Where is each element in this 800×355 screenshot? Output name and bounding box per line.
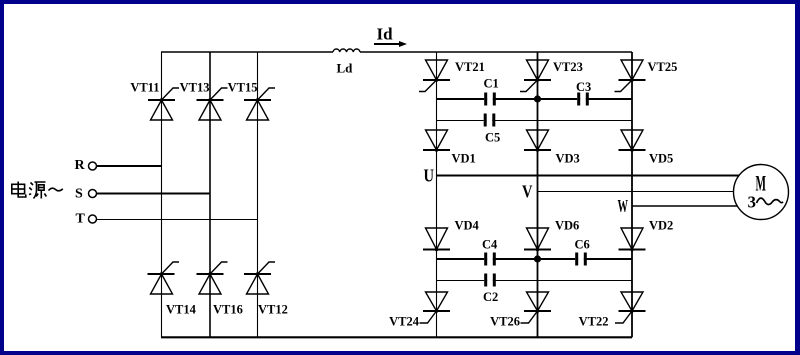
- wire commutation rail bottom2: [437, 280, 633, 282]
- svg-text:C2: C2: [483, 290, 498, 304]
- junction dot rail3-legB: [534, 255, 541, 262]
- svg-text:3: 3: [748, 193, 757, 212]
- diode VD1: [423, 130, 476, 166]
- svg-text:C1: C1: [484, 77, 499, 91]
- wire rectifier leg 2: [209, 52, 211, 337]
- svg-text:T: T: [76, 212, 86, 227]
- current arrow Id: [374, 25, 407, 48]
- wire rectifier leg 3: [257, 52, 259, 337]
- diode VD2: [619, 219, 674, 252]
- svg-text:C5: C5: [485, 131, 500, 145]
- svg-text:VD2: VD2: [649, 219, 673, 233]
- svg-text:VD6: VD6: [555, 219, 579, 233]
- svg-text:R: R: [75, 158, 86, 173]
- label Ld: [337, 61, 354, 76]
- thyristor VT13: [180, 81, 228, 121]
- thyristor VT22: [579, 292, 646, 329]
- svg-text:C4: C4: [482, 238, 498, 252]
- label power source 电源~: [12, 182, 63, 199]
- motor M circle: [734, 165, 789, 220]
- svg-text:W: W: [618, 196, 629, 216]
- svg-text:VT13: VT13: [180, 81, 210, 95]
- wire inverter leg C: [631, 52, 633, 337]
- label U: [424, 166, 435, 186]
- diode VD5: [619, 130, 674, 166]
- svg-text:VT22: VT22: [579, 315, 609, 329]
- capacitor C1: [484, 77, 499, 106]
- svg-text:Id: Id: [377, 25, 394, 44]
- svg-text:U: U: [424, 166, 435, 186]
- thyristor VT23: [520, 60, 583, 92]
- thyristor VT12: [244, 262, 288, 317]
- svg-text:VT14: VT14: [166, 303, 197, 317]
- wire rectifier leg 1: [161, 52, 163, 337]
- inductor Ld coil: [333, 49, 360, 52]
- wire top DC bus: [161, 51, 632, 53]
- thyristor VT24: [389, 292, 450, 329]
- svg-text:M: M: [756, 171, 767, 196]
- thyristor VT11: [130, 81, 179, 121]
- capacitor C4: [482, 238, 498, 266]
- svg-text:VD5: VD5: [649, 152, 673, 166]
- wire bottom DC bus: [161, 336, 632, 338]
- thyristor VT16: [197, 262, 243, 317]
- wire phase T: [97, 219, 258, 221]
- svg-text:C6: C6: [575, 238, 590, 252]
- wire phase R: [97, 165, 162, 167]
- label T: [76, 212, 86, 227]
- svg-text:VT21: VT21: [455, 60, 485, 74]
- thyristor VT14: [148, 262, 197, 317]
- capacitor C3: [576, 80, 591, 106]
- svg-text:VT11: VT11: [130, 81, 159, 95]
- diode VD4: [423, 219, 480, 252]
- svg-text:VD3: VD3: [556, 152, 580, 166]
- svg-text:VD4: VD4: [455, 219, 480, 233]
- terminal S circle: [89, 190, 97, 198]
- svg-text:VT26: VT26: [490, 315, 520, 329]
- wire output U: [437, 175, 740, 177]
- label R: [75, 158, 86, 173]
- wire phase S: [97, 193, 210, 195]
- svg-text:VD1: VD1: [452, 152, 476, 166]
- terminal T circle: [89, 215, 97, 223]
- svg-text:S: S: [75, 187, 83, 202]
- svg-text:V: V: [522, 182, 533, 202]
- thyristor VT26: [490, 292, 551, 329]
- wire commutation rail top1: [437, 98, 633, 100]
- label W: [618, 196, 629, 216]
- wire inverter leg A: [436, 52, 438, 337]
- diode VD3: [524, 130, 580, 166]
- wire commutation rail top2: [437, 120, 633, 122]
- wire inverter leg B: [537, 52, 539, 337]
- terminal R circle: [89, 162, 97, 170]
- capacitor C5: [484, 114, 501, 145]
- wire output W: [632, 205, 738, 207]
- diode VD6: [524, 219, 579, 252]
- svg-text:VT23: VT23: [553, 60, 583, 74]
- svg-text:VT25: VT25: [648, 60, 678, 74]
- svg-text:VT24: VT24: [389, 315, 420, 329]
- label V: [522, 182, 533, 202]
- svg-text:VT12: VT12: [258, 303, 288, 317]
- svg-text:C3: C3: [576, 80, 591, 94]
- capacitor C6: [575, 238, 590, 266]
- thyristor VT15: [228, 81, 275, 121]
- svg-text:VT16: VT16: [213, 303, 243, 317]
- thyristor VT21: [419, 60, 485, 92]
- capacitor C2: [483, 274, 498, 305]
- svg-text:VT15: VT15: [228, 81, 258, 95]
- thyristor VT25: [615, 60, 678, 92]
- svg-text:Ld: Ld: [337, 61, 354, 76]
- label S: [75, 187, 83, 202]
- junction dot rail1-legB: [534, 95, 541, 102]
- wire commutation rail bottom1: [437, 258, 633, 260]
- wire output V: [538, 191, 734, 193]
